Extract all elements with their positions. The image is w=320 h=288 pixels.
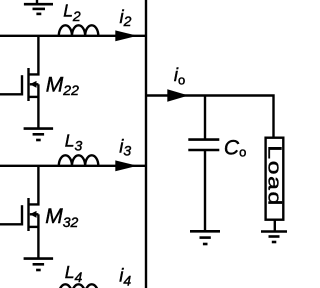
svg-text:M32: M32 (45, 205, 78, 230)
transistor M32 (0, 166, 38, 259)
svg-text:L3: L3 (65, 130, 83, 153)
current arrow i2 (115, 30, 137, 41)
inductor L4 (partial, bottom edge) (59, 284, 99, 288)
inductor L3 (59, 155, 99, 165)
svg-text:L2: L2 (63, 0, 81, 24)
svg-text:i4: i4 (119, 265, 131, 288)
ground (top, cropped phase-1 source ground) (24, 0, 53, 14)
load (resistor box) (266, 138, 284, 220)
capacitor Co (188, 96, 219, 232)
wire (load to ground) (274, 220, 276, 232)
svg-text:i2: i2 (120, 6, 132, 29)
current arrow io (167, 89, 188, 101)
wire (phase-2 input row) (0, 35, 146, 37)
ground (below load) (261, 232, 287, 243)
svg-text:L4: L4 (65, 262, 83, 285)
svg-text:Co: Co (224, 136, 246, 159)
wire (output bus) (145, 0, 147, 288)
ground (below M32) (24, 259, 53, 270)
wire (output node to load) (146, 96, 274, 138)
svg-text:Load: Load (264, 145, 285, 207)
ground (below M22) (24, 129, 53, 140)
svg-text:M22: M22 (46, 73, 79, 98)
wire (phase-3 input row) (0, 165, 146, 167)
inductor L2 (59, 25, 99, 35)
svg-text:io: io (174, 64, 185, 87)
current arrow i3 (115, 160, 137, 171)
transistor M22 (0, 36, 38, 129)
ground (below Co) (190, 231, 220, 244)
svg-text:i3: i3 (119, 135, 131, 158)
